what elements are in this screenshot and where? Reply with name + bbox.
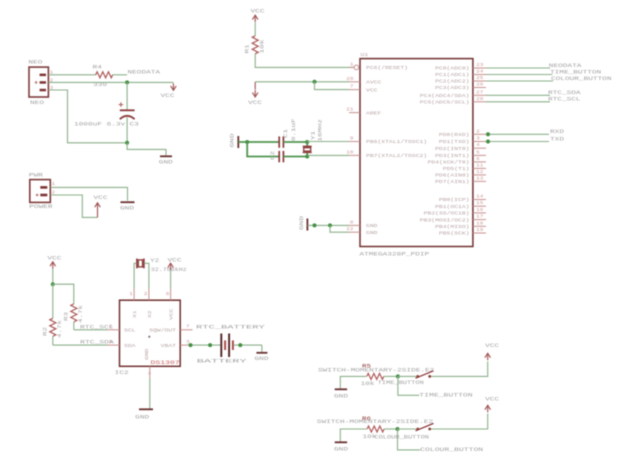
svg-text:PB2(SS/OC1B): PB2(SS/OC1B) xyxy=(424,212,470,217)
svg-text:SDA: SDA xyxy=(124,344,136,349)
wire C2 to XTAL2 xyxy=(283,156,307,158)
wire branch to VCC pin7 xyxy=(315,82,350,90)
svg-text:U1: U1 xyxy=(361,52,369,58)
wire R3 to SCL xyxy=(73,322,75,330)
wire to GND below C3 xyxy=(127,143,166,156)
svg-text:VCC: VCC xyxy=(366,88,378,93)
svg-text:2: 2 xyxy=(476,129,480,134)
svg-text:13: 13 xyxy=(476,176,484,181)
battery BATTERY xyxy=(220,334,222,358)
svg-text:DS1307: DS1307 xyxy=(151,360,180,366)
svg-text:X2: X2 xyxy=(148,310,153,318)
svg-text:GND: GND xyxy=(334,447,348,453)
svg-text:COLOUR_BUTTON: COLOUR_BUTTON xyxy=(374,434,429,440)
ground symbol below R5 xyxy=(335,388,347,390)
svg-text:PB3(MOSI/OC2): PB3(MOSI/OC2) xyxy=(420,218,470,223)
svg-text:1: 1 xyxy=(129,292,133,297)
svg-text:GND: GND xyxy=(366,231,378,236)
capacitor C1 0.1uF xyxy=(278,136,280,147)
wire VCC down to junction xyxy=(52,269,54,284)
svg-text:R1: R1 xyxy=(245,44,251,53)
wire junction to switch xyxy=(398,428,417,430)
wire PC4 net RTC_SDA xyxy=(486,94,550,96)
svg-text:7: 7 xyxy=(350,85,354,90)
svg-text:PC4(ADC4/SDA): PC4(ADC4/SDA) xyxy=(420,94,470,99)
resistor R5 10k xyxy=(367,373,384,379)
svg-text:R6: R6 xyxy=(362,416,371,422)
svg-text:TIME_BUTTON: TIME_BUTTON xyxy=(378,380,424,386)
svg-text:28: 28 xyxy=(476,97,484,102)
svg-text:27: 27 xyxy=(476,90,484,95)
wire NEO pin1 to R4 xyxy=(48,74,96,76)
svg-text:23: 23 xyxy=(476,63,484,68)
svg-text:0.1uF: 0.1uF xyxy=(291,119,297,142)
svg-text:POWER: POWER xyxy=(29,204,52,210)
svg-text:PB7(XTAL2/TOSC2): PB7(XTAL2/TOSC2) xyxy=(366,154,427,159)
junction gnd 2 xyxy=(328,223,332,227)
svg-text:4.7k: 4.7k xyxy=(78,305,84,323)
svg-text:RTC_SDA: RTC_SDA xyxy=(548,90,582,96)
svg-text:RTC_SCL: RTC_SCL xyxy=(80,324,114,330)
junction at C3 top xyxy=(125,80,129,84)
svg-text:TIME_BUTTON: TIME_BUTTON xyxy=(419,392,472,398)
wire VBAT to battery xyxy=(190,344,221,346)
junction gnd 1 xyxy=(313,223,317,227)
svg-text:1: 1 xyxy=(350,62,354,67)
svg-text:GND: GND xyxy=(120,205,134,211)
svg-text:GND: GND xyxy=(145,348,150,360)
svg-text:6: 6 xyxy=(476,157,480,162)
junction xtal gnd xyxy=(245,140,249,144)
wire NEO pin3 down to GND rail xyxy=(48,90,127,143)
svg-text:PD7(AIN1): PD7(AIN1) xyxy=(435,180,469,185)
svg-text:RTC_SDA: RTC_SDA xyxy=(80,340,115,346)
wire R1 to RESET pin1 xyxy=(255,54,354,68)
wire VCC to AVCC pin20 xyxy=(254,82,256,90)
supply VCC above colour button xyxy=(485,405,491,409)
capacitor C2 0.1uF xyxy=(278,151,280,162)
svg-text:VCC: VCC xyxy=(161,93,175,99)
junction time button xyxy=(396,374,400,378)
svg-text:4: 4 xyxy=(148,372,152,377)
svg-text:PC3(ADC3): PC3(ADC3) xyxy=(435,86,469,91)
wire PC1 net TIME_BUTTON xyxy=(486,74,552,76)
wire PWR pin2 to VCC xyxy=(50,195,97,217)
wire VCC to R1 xyxy=(254,23,256,36)
svg-text:8: 8 xyxy=(166,292,170,297)
svg-text:PD1(TXD): PD1(TXD) xyxy=(439,140,470,145)
svg-text:PB1(OC1A): PB1(OC1A) xyxy=(435,205,469,210)
wire XTAL1 to pin9 xyxy=(307,141,349,143)
wire VCC to IC2 vcc pin xyxy=(170,270,172,288)
svg-text:NEO: NEO xyxy=(30,100,44,106)
svg-text:3: 3 xyxy=(476,137,480,142)
wire PD0 net RXD xyxy=(486,133,549,135)
svg-text:10k: 10k xyxy=(260,40,266,54)
svg-text:BATTERY: BATTERY xyxy=(197,359,249,365)
svg-text:GND: GND xyxy=(299,216,305,230)
wire down to C2 xyxy=(247,142,279,157)
svg-text:25: 25 xyxy=(476,76,484,81)
wire PC0 net NEODATA xyxy=(486,67,550,69)
svg-text:NEODATA: NEODATA xyxy=(128,69,162,75)
svg-text:4: 4 xyxy=(476,143,480,148)
svg-text:SCL: SCL xyxy=(124,329,136,334)
junction XTAL2 xyxy=(305,155,309,159)
supply VCC (down) for AVCC rail xyxy=(252,93,258,97)
svg-text:C2: C2 xyxy=(270,151,276,160)
svg-text:RTC_SCL: RTC_SCL xyxy=(548,97,581,103)
capacitor C3 1000uF 6.3v (polarized) xyxy=(126,82,128,110)
wire net RTC_SDA to IC2 xyxy=(53,344,108,346)
supply VCC (down arrow) right of NEO xyxy=(171,86,177,90)
wire PD1 net TXD xyxy=(486,141,549,143)
svg-text:VCC: VCC xyxy=(47,255,61,261)
svg-text:8: 8 xyxy=(350,220,354,225)
wire net RTC_SCL to IC2 xyxy=(74,329,108,331)
svg-text:26: 26 xyxy=(476,83,484,88)
svg-text:AREF: AREF xyxy=(366,111,382,116)
svg-text:GND: GND xyxy=(135,415,149,421)
svg-text:PB4(MISO): PB4(MISO) xyxy=(435,225,469,230)
wire IC2 GND pin down xyxy=(149,378,151,409)
svg-text:PC6(/RESET): PC6(/RESET) xyxy=(366,66,408,71)
svg-text:PD6(AIN0): PD6(AIN0) xyxy=(435,174,469,179)
svg-text:20: 20 xyxy=(346,77,354,82)
svg-text:RXD: RXD xyxy=(550,129,564,135)
resistor R6 10k xyxy=(367,426,384,432)
svg-text:Y1: Y1 xyxy=(311,131,317,140)
svg-text:ATMEGA328P_PDIP: ATMEGA328P_PDIP xyxy=(359,251,429,257)
svg-text:VCC: VCC xyxy=(94,195,108,201)
wire R4 to NEODATA label xyxy=(112,74,127,76)
svg-text:SWITCH-MOMENTARY-2SIDE.E2: SWITCH-MOMENTARY-2SIDE.E2 xyxy=(318,367,434,373)
svg-text:X1: X1 xyxy=(133,310,138,318)
wire C1 to XTAL1 xyxy=(283,141,307,143)
svg-text:PD4(XCK/T0): PD4(XCK/T0) xyxy=(428,161,470,166)
svg-text:16: 16 xyxy=(476,208,484,213)
svg-text:R3: R3 xyxy=(64,312,70,321)
svg-text:PC5(ADC5/SCL): PC5(ADC5/SCL) xyxy=(420,101,470,106)
svg-text:22: 22 xyxy=(346,227,354,232)
svg-text:C3: C3 xyxy=(130,121,139,127)
resistor R4 xyxy=(96,72,113,78)
svg-text:NEO: NEO xyxy=(28,59,42,65)
supply VCC above time button xyxy=(485,353,491,357)
svg-text:TIME_BUTTON: TIME_BUTTON xyxy=(550,69,601,75)
svg-text:19: 19 xyxy=(476,228,484,233)
svg-text:18: 18 xyxy=(476,221,484,226)
ground symbol below IC2 xyxy=(139,408,153,410)
supply VCC (up arrow) below PWR xyxy=(95,203,101,207)
svg-text:PB0(ICP): PB0(ICP) xyxy=(439,198,470,203)
wire GND to pin8 xyxy=(307,224,349,226)
svg-text:PD5(T1): PD5(T1) xyxy=(443,167,470,172)
svg-text:VCC: VCC xyxy=(251,8,265,14)
crystal Y2 32.768kHz xyxy=(136,259,138,269)
IC2 pin stubs and numbers xyxy=(133,289,135,301)
wire NEO pin2 to VCC xyxy=(48,81,173,83)
svg-text:GND: GND xyxy=(230,134,236,148)
wire junction down to net TIME_BUTTON xyxy=(398,376,419,395)
svg-text:PB5(SCK): PB5(SCK) xyxy=(439,232,470,237)
wire branch to pin22 xyxy=(330,225,349,232)
svg-text:VCC: VCC xyxy=(485,396,499,402)
ground symbol right of PWR xyxy=(121,201,135,203)
wire junction to switch xyxy=(398,375,416,377)
svg-text:R4: R4 xyxy=(93,65,102,71)
ground symbol below R6 xyxy=(335,441,347,443)
junction colour button xyxy=(396,427,400,431)
svg-text:PB6(XTAL1/TOSC1): PB6(XTAL1/TOSC1) xyxy=(366,140,427,145)
svg-text:12: 12 xyxy=(476,170,484,175)
svg-text:VCC: VCC xyxy=(248,100,262,106)
wire battery to GND xyxy=(234,344,262,346)
switch S1 momentary xyxy=(416,375,419,378)
wire PC2 net COLOUR_BUTTON xyxy=(486,80,553,82)
crystal Y1 16MHz xyxy=(306,142,308,146)
wire X1 to crystal xyxy=(134,263,136,288)
resistor R3 4.7k xyxy=(53,284,74,304)
svg-text:10: 10 xyxy=(346,150,354,155)
U1 right pin stubs and numbers xyxy=(473,67,486,69)
svg-text:R5: R5 xyxy=(362,364,371,370)
resistor R1 10k xyxy=(252,36,258,54)
svg-text:PC0(ADC0): PC0(ADC0) xyxy=(435,67,469,72)
svg-text:32.768kHz: 32.768kHz xyxy=(151,267,187,273)
svg-text:7: 7 xyxy=(186,325,190,330)
svg-text:1: 1 xyxy=(52,182,56,187)
svg-text:COLOUR_BUTTON: COLOUR_BUTTON xyxy=(551,76,612,82)
ground symbol below C3 xyxy=(160,155,172,157)
svg-text:C1: C1 xyxy=(283,129,289,138)
wire GND to R6 xyxy=(340,429,367,442)
svg-text:14: 14 xyxy=(476,195,484,200)
svg-text:COLOUR_BUTTON: COLOUR_BUTTON xyxy=(420,447,483,453)
svg-text:5: 5 xyxy=(476,150,480,155)
svg-text:GND: GND xyxy=(255,356,269,362)
junction at C3 bottom xyxy=(125,141,129,145)
wire X2 to crystal xyxy=(144,263,149,288)
svg-text:10k: 10k xyxy=(361,381,375,387)
svg-text:TXD: TXD xyxy=(550,136,564,142)
svg-text:1000uF 6.3v: 1000uF 6.3v xyxy=(74,121,125,127)
wire GND to caps xyxy=(238,141,279,143)
svg-text:VCC: VCC xyxy=(168,258,182,264)
svg-text:PD3(INT1): PD3(INT1) xyxy=(435,154,469,159)
svg-text:VCC: VCC xyxy=(170,308,175,320)
svg-text:16MHz: 16MHz xyxy=(318,119,324,142)
svg-text:AVCC: AVCC xyxy=(366,81,382,86)
svg-text:PC2(ADC2): PC2(ADC2) xyxy=(435,80,469,85)
IC2 DS1307 body xyxy=(120,300,181,366)
svg-text:GND: GND xyxy=(366,224,378,229)
junction XTAL1 xyxy=(305,140,309,144)
wire switch to VCC xyxy=(431,414,488,430)
wire junction down to net COLOUR_BUTTON xyxy=(398,429,421,450)
svg-text:VBAT: VBAT xyxy=(161,344,177,349)
junction R2/R3 xyxy=(51,282,55,286)
svg-text:11: 11 xyxy=(476,163,484,168)
svg-text:NEODATA: NEODATA xyxy=(549,63,583,69)
U1 left pin stubs and numbers xyxy=(349,66,354,68)
wire R2 to SDA xyxy=(52,336,54,345)
svg-text:2: 2 xyxy=(144,292,148,297)
wire R6 to junction xyxy=(384,428,397,430)
svg-text:15: 15 xyxy=(476,201,484,206)
svg-text:VCC: VCC xyxy=(485,343,499,349)
resistor R2 4.7k xyxy=(52,284,54,318)
svg-text:GND: GND xyxy=(159,160,173,166)
svg-text:R2: R2 xyxy=(43,327,49,336)
svg-text:PWR: PWR xyxy=(29,172,43,178)
ground symbol right of battery xyxy=(256,352,267,354)
wire XTAL2 to pin10 xyxy=(307,154,349,156)
svg-text:GND: GND xyxy=(334,393,348,399)
svg-text:4.7k: 4.7k xyxy=(57,320,63,338)
svg-text:PC1(ADC1): PC1(ADC1) xyxy=(435,73,469,78)
svg-text:SWITCH-MOMENTARY-2SIDE.E2: SWITCH-MOMENTARY-2SIDE.E2 xyxy=(317,419,433,425)
svg-text:PD0(RXD): PD0(RXD) xyxy=(439,133,470,138)
svg-text:IC2: IC2 xyxy=(115,370,129,376)
svg-text:17: 17 xyxy=(476,215,484,220)
wire PWR pin1 to GND xyxy=(50,187,127,200)
svg-text:24: 24 xyxy=(476,70,484,75)
wire R5 to junction xyxy=(384,375,398,377)
wire GND to R5 xyxy=(340,376,366,388)
wire PC5 net RTC_SCL xyxy=(486,101,550,103)
svg-text:PD2(INT0): PD2(INT0) xyxy=(435,147,469,152)
wire switch to VCC xyxy=(431,362,488,377)
switch S2 momentary xyxy=(416,428,419,431)
svg-text:SQW/OUT: SQW/OUT xyxy=(149,329,176,334)
svg-text:9: 9 xyxy=(350,137,354,142)
svg-text:RTC_BATTERY: RTC_BATTERY xyxy=(196,324,267,330)
svg-text:21: 21 xyxy=(346,108,354,113)
svg-text:Y2: Y2 xyxy=(150,258,159,264)
junction AVCC/VCC branch xyxy=(313,80,317,84)
